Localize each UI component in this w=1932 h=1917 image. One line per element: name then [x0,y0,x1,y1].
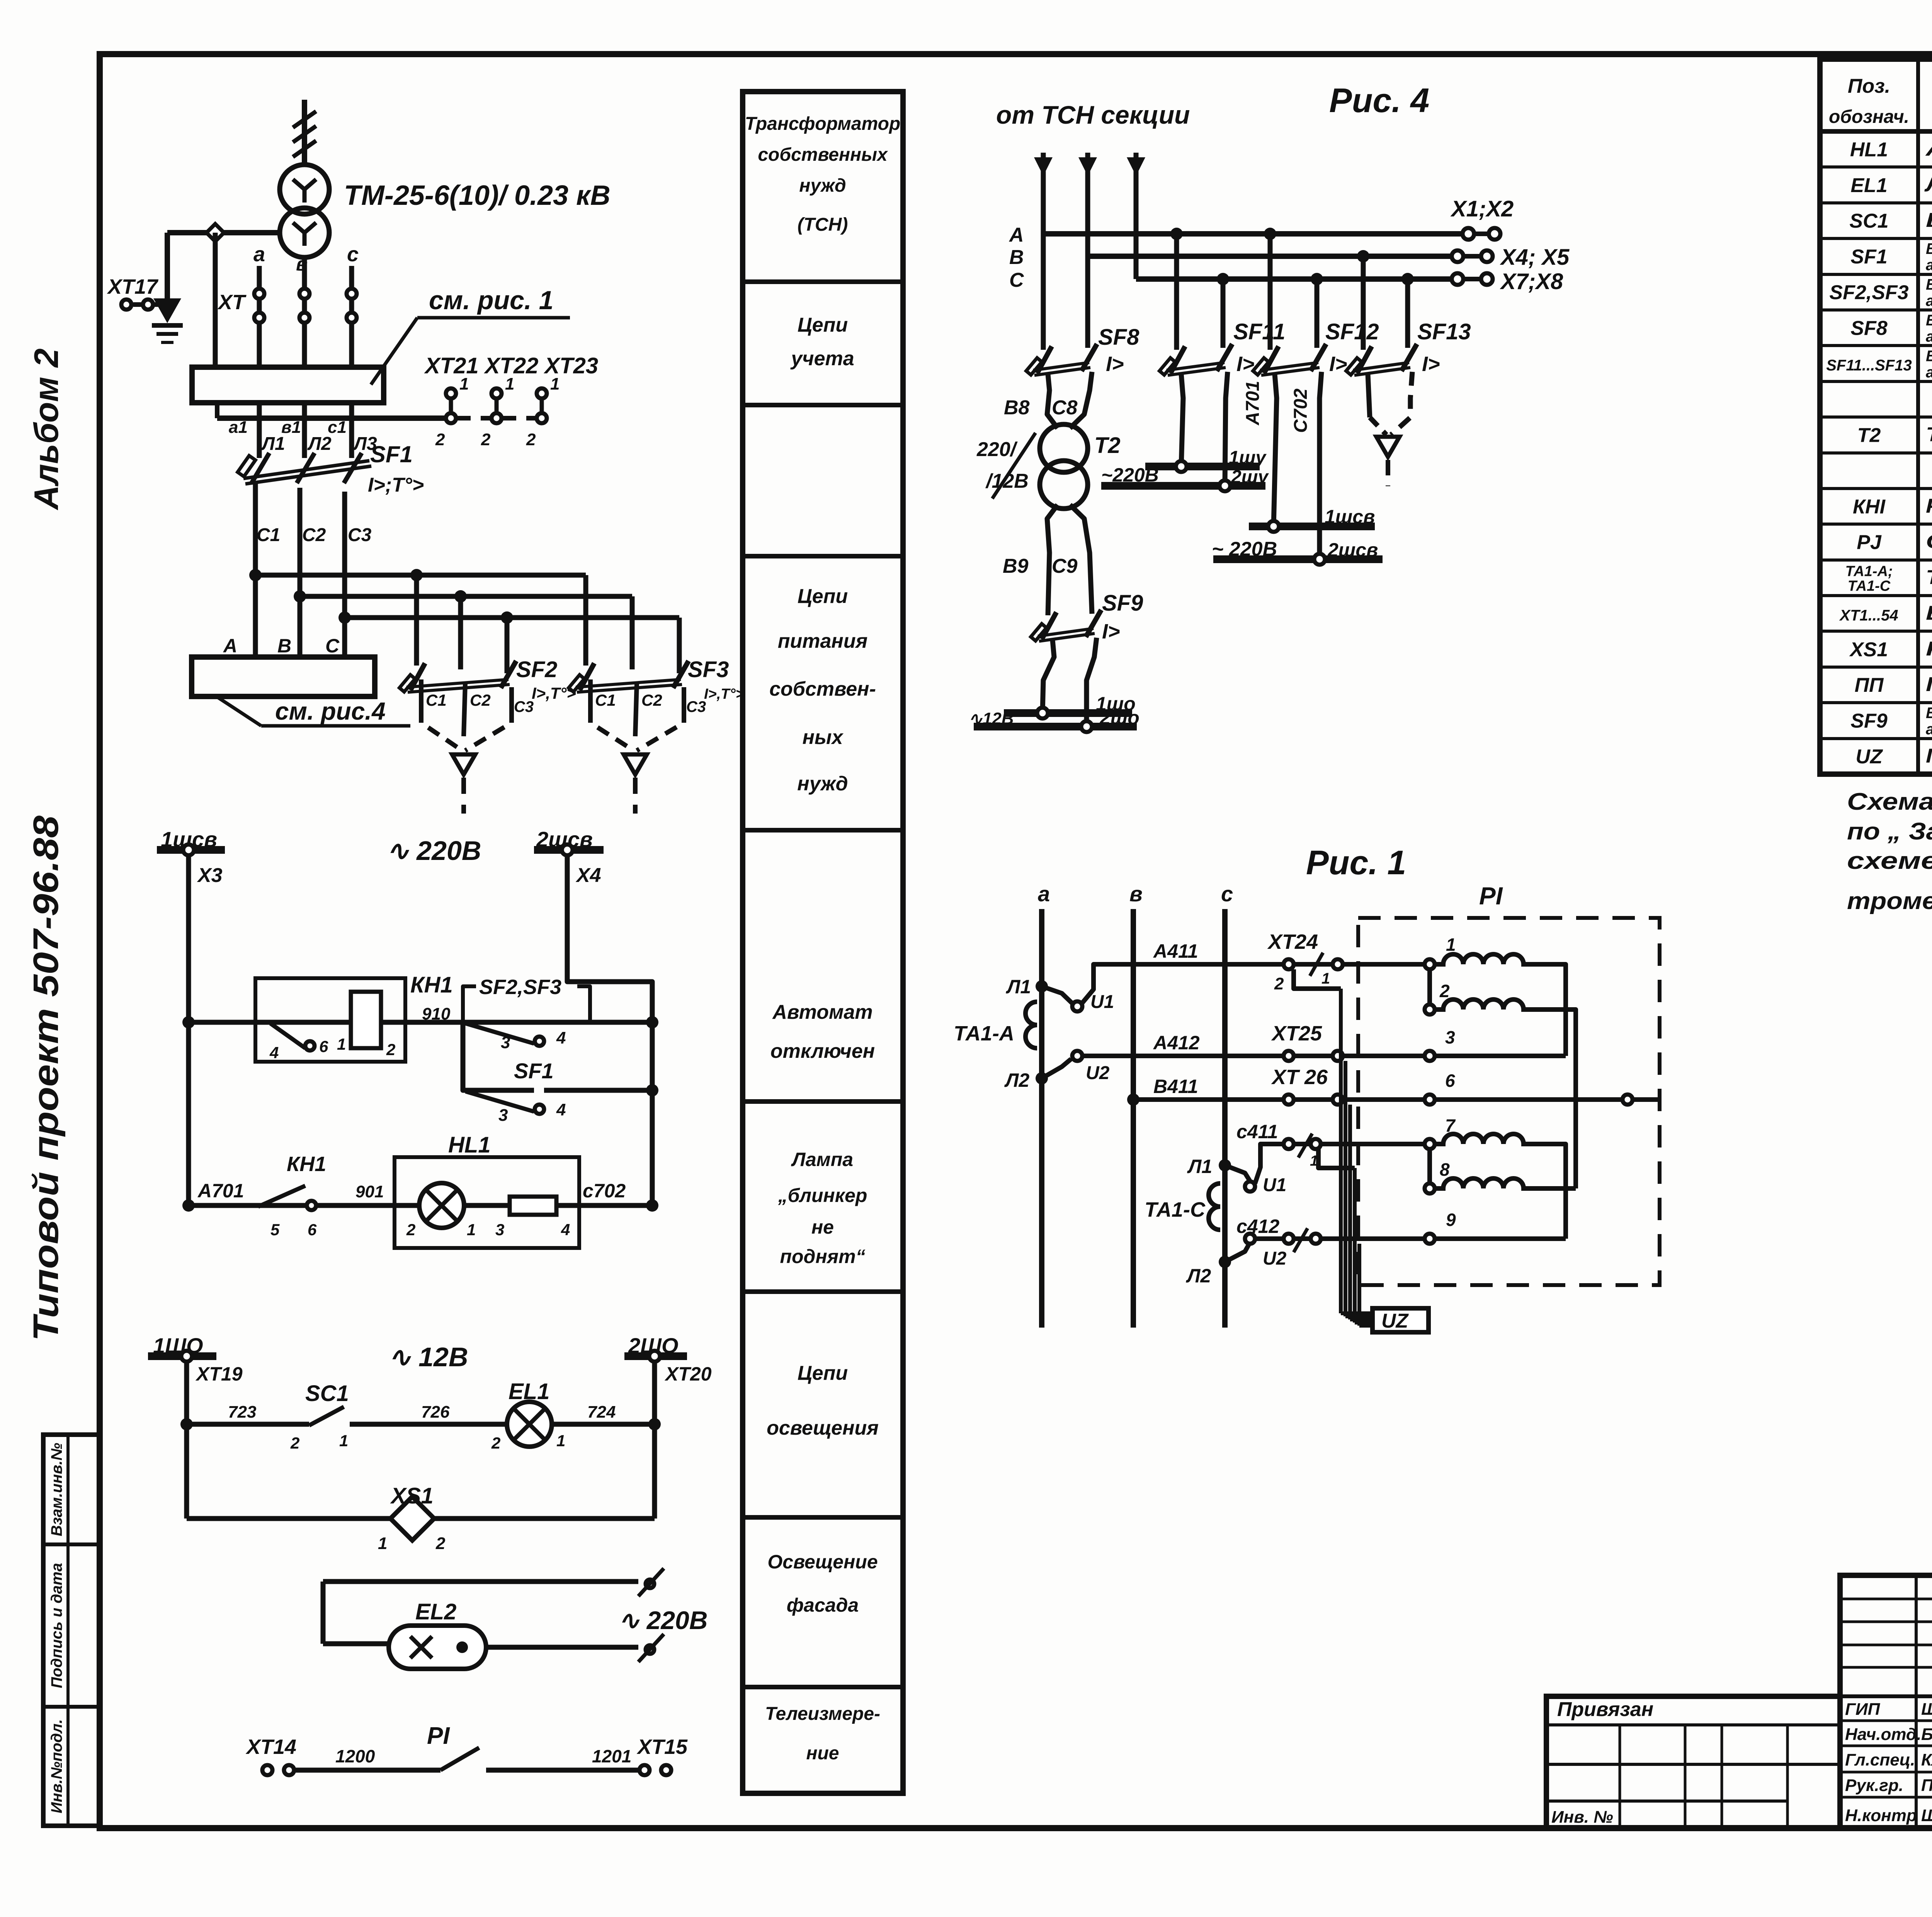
CT TA1-C U2 terminal [1245,1234,1255,1244]
wire winding2 to right [1531,1010,1576,1188]
svg-text:6: 6 [319,1037,328,1056]
svg-text:Трансформатор: Трансформатор [745,114,901,134]
wire XT17 link [133,302,167,307]
SF11 pole drops [1174,234,1179,350]
svg-text:С1: С1 [595,691,616,709]
breaker SF3 flag [569,675,585,692]
wire 9 to loop [1435,1236,1566,1241]
svg-text:Х4; Х5: Х4; Х5 [1500,245,1570,270]
CT TA1-C secondary arcs [1209,1183,1220,1230]
svg-text:U2: U2 [1263,1248,1287,1269]
svg-text:В8: В8 [1004,397,1030,419]
svg-text:4: 4 [556,1100,566,1119]
incoming supply line with hatches [302,100,307,165]
svg-text:Реле указательное РУ1-11-1УЗ;: Реле указательное РУ1-11-1УЗ; 220В; 50Гц [1926,495,1932,517]
EL2 bottom open contact [646,1645,654,1654]
svg-text:собственных: собственных [758,145,888,165]
svg-text:SF11: SF11 [1233,319,1285,344]
svg-text:автоматический: автоматический [1926,328,1932,345]
svg-text:I>: I> [1106,352,1124,376]
svg-text:SC1: SC1 [1849,210,1888,232]
svg-text:Л1: Л1 [261,434,285,454]
svg-text:SF9: SF9 [1102,591,1143,616]
svg-text:4: 4 [561,1221,570,1239]
svg-text:Л2: Л2 [307,434,332,454]
svg-text:ХТ 26: ХТ 26 [1271,1066,1328,1089]
wire X3 down [186,855,191,1205]
svg-text:SF1: SF1 [370,441,413,467]
contact SF2SF3 blade [466,1023,534,1044]
svg-text:2: 2 [1439,981,1450,1001]
svg-text:Цепи: Цепи [798,314,848,336]
svg-text:I>: I> [1236,352,1255,376]
phase mark c411 [1298,1134,1312,1158]
terminal c412 circles [1284,1234,1294,1244]
SF3 arrow head [624,754,647,775]
wire lamp row [189,1203,652,1208]
CT TA1-A U1 terminal [1042,986,1072,1003]
svg-text:нужд: нужд [799,175,846,196]
svg-text:А: А [1009,224,1024,246]
CT TA1-C U1 terminal [1225,1165,1250,1181]
svg-text:Подпись и дата: Подпись и дата [48,1563,65,1688]
bus 1шо [1004,709,1132,717]
switch PI blade [440,1748,479,1770]
svg-text:2: 2 [1274,974,1284,993]
svg-text:с: с [347,243,359,266]
transformer T1 winding 2 Y symbol [293,223,316,246]
svg-text:С702: С702 [1291,388,1311,433]
svg-text:Трансформатор ОСМ-0,25 УЗ; 22: Трансформатор ОСМ-0,25 УЗ; 220/12В [1926,424,1932,446]
phase mark c412 [1294,1228,1308,1252]
transformer T2 winding 1 [1040,424,1088,472]
svg-text:1шсв: 1шсв [1325,506,1375,528]
svg-text:Трансформатор тока ТК20-0,5-1: Трансформатор тока ТК20-0,5-100/343 [1926,566,1932,589]
svg-text:Л2: Л2 [1004,1069,1029,1091]
terminal XT24 [1284,959,1294,969]
bus A [1043,231,1468,237]
svg-text:ХТ24: ХТ24 [1267,930,1318,953]
PI terminal 1 [1425,959,1435,969]
EL2 wire to right contact [486,1645,638,1650]
svg-text:∿ 12В: ∿ 12В [388,1342,468,1372]
svg-text:а1: а1 [229,418,248,437]
svg-text:С9: С9 [1052,555,1078,577]
breaker SF2 blades [410,663,425,690]
svg-text:1: 1 [505,375,514,393]
bus 2шо [974,723,1137,730]
wire c412 to PI 9 [1321,1236,1425,1241]
svg-text:HL1: HL1 [448,1132,491,1158]
svg-text:Л1: Л1 [1187,1156,1212,1177]
svg-text:питания: питания [778,630,867,652]
svg-text:схеме ВИЮЕ 305. 351. 004 С: схеме ВИЮЕ 305. 351. 004 Свердловского э… [1847,848,1932,874]
transformer T1 winding 1 Y symbol [293,179,316,203]
SF3 pole stubs below blades [588,679,593,710]
link PI terminals 7-8 [1427,1149,1432,1183]
svg-text:2: 2 [491,1434,500,1452]
svg-text:ХТ15: ХТ15 [636,1735,688,1759]
bus c [1222,909,1228,1328]
svg-text:Х3: Х3 [197,864,223,887]
svg-text:С3: С3 [514,698,534,715]
svg-text:ХS1: ХS1 [390,1483,434,1508]
svg-text:I>: I> [1329,352,1347,376]
svg-text:обознач.: обознач. [1829,107,1909,127]
CT TA1-A secondary arcs [1026,1002,1037,1048]
svg-text:Гл.спец.: Гл.спец. [1845,1750,1915,1769]
lamp EL1 [507,1402,552,1447]
breaker SF1 flag [238,456,255,477]
svg-text:Выключатель: Выключатель [1926,312,1932,329]
bus C terminals X7 X8 [1452,273,1463,285]
contact SF1 blade [466,1091,534,1112]
svg-text:1: 1 [459,375,469,393]
SF1 poles upper [257,403,262,458]
svg-text:SF12: SF12 [1325,319,1379,344]
wire SC1 EL1 row [187,1422,309,1427]
breaker SF2 linkage bar [406,679,509,687]
bus 2шсв [1213,555,1383,563]
breaker SF11 linkage bar [1167,363,1225,370]
wire SF1 row [463,1022,534,1090]
svg-text:КНI: КНI [1853,495,1886,518]
svg-text:от ТСН секции: от ТСН секции [996,100,1190,129]
svg-text:с412: с412 [1236,1216,1279,1237]
wire XT20 down [652,1362,657,1519]
svg-text:1: 1 [550,375,560,393]
svg-text:SF2: SF2 [516,657,557,682]
svg-text:UZ: UZ [1381,1310,1409,1332]
busbar box 2 [192,657,375,696]
svg-text:ХТ20: ХТ20 [664,1363,712,1385]
svg-text:Х7;Х8: Х7;Х8 [1500,269,1563,294]
phase line b [302,257,307,367]
lamp EL2 oval [389,1626,486,1669]
svg-text:ХS1: ХS1 [1849,638,1888,661]
svg-text:Предохранитель ПП-А/343; 220/: Предохранитель ПП-А/343; 220/230В [1926,673,1932,696]
wire after SC1 [350,1422,507,1427]
svg-text:см. рис. 1: см. рис. 1 [429,286,553,315]
bus 2шу [1101,482,1265,490]
svg-text:Инв.№подл.: Инв.№подл. [48,1719,65,1813]
SF3 dashed stub [633,778,638,814]
svg-text:А411: А411 [1153,940,1198,962]
phase mark XT24 [1310,953,1323,976]
bus 1ШО [148,1352,216,1360]
PI terminal 6 [1425,1095,1435,1105]
bus 2ШО [624,1352,687,1360]
switch SC1 blade [309,1407,344,1425]
wire KH1 row [189,1020,652,1025]
svg-text:Н.контр: Н.контр [1845,1806,1917,1825]
svg-text:а: а [253,243,265,266]
svg-text:В9: В9 [1003,555,1029,577]
svg-text:2: 2 [481,430,491,449]
feeder verticals [1041,170,1046,234]
svg-text:Т2: Т2 [1094,433,1121,458]
converter UZ box [1372,1308,1429,1332]
svg-text:нужд: нужд [797,773,848,795]
svg-text:ХТ17: ХТ17 [107,275,159,298]
svg-text:ХТ19: ХТ19 [195,1363,243,1385]
svg-text:С: С [1009,269,1024,291]
linkage SF2 SF3 contact [463,986,476,1022]
EL2 loop left wire [321,1582,326,1644]
svg-text:2шу: 2шу [1231,467,1269,487]
wire A412 row [1082,1054,1283,1058]
svg-text:освещения: освещения [767,1417,879,1439]
svg-text:1: 1 [556,1432,565,1450]
svg-text:SC1: SC1 [305,1381,349,1406]
svg-text:1: 1 [337,1035,346,1053]
svg-text:1: 1 [1446,935,1456,955]
breaker SF8 linkage bar [1033,363,1089,370]
transformer T2 winding 2 [1040,461,1088,509]
svg-text:3: 3 [501,1033,510,1052]
svg-text:А: А [223,635,237,657]
svg-text:А701: А701 [1243,381,1263,426]
breaker SF12 linkage bar [1260,363,1318,370]
wire 1201 [486,1768,639,1773]
svg-text:ТА1-С: ТА1-С [1848,578,1891,594]
svg-text:2: 2 [406,1221,415,1239]
svg-text:SF8: SF8 [1850,317,1887,339]
breaker SF9 flag [1031,624,1047,641]
dashed links between test terminals [456,416,492,421]
SF8 poles to T2 [1047,374,1058,428]
wire XT26 to PI 6 [1343,1097,1425,1102]
SF13 poles converge dashed [1368,374,1370,417]
svg-text:Рис. 4: Рис. 4 [1329,81,1429,119]
PI terminal 9 [1425,1234,1435,1244]
svg-text:в: в [1129,882,1143,906]
svg-text:С1: С1 [257,525,280,545]
svg-text:ТМ-25-6(10)/ 0.23 кВ: ТМ-25-6(10)/ 0.23 кВ [344,180,611,211]
wire c412 [1255,1236,1283,1241]
svg-text:ТА1-А;: ТА1-А; [1845,564,1893,580]
svg-text:поднят“: поднят“ [780,1246,865,1267]
PI terminal 8 [1425,1183,1435,1193]
node diamond on tap wire [206,224,224,241]
svg-text:ХТ1...54: ХТ1...54 [1839,607,1898,624]
junction dots on branch wires [249,569,262,581]
bus 1шу [1145,463,1260,470]
callout см. рис.4 [216,696,261,726]
svg-text:фасада: фасада [787,1594,859,1616]
wire X4 down with jog [567,855,652,1205]
breaker SF12 flag [1253,358,1269,375]
SF2 dashed stub [461,778,466,814]
bus B terminals X4 X5 [1452,250,1463,262]
branch wire 2 [300,594,632,599]
svg-text:2: 2 [290,1434,299,1452]
svg-text:SF1: SF1 [514,1059,554,1083]
PI terminal 2 [1425,1004,1435,1015]
svg-text:Рук.гр.: Рук.гр. [1845,1776,1903,1795]
svg-text:автоматический: автоматический [1926,721,1932,738]
svg-text:Поз.: Поз. [1848,75,1890,97]
ground symbol [152,323,183,328]
phase line a [257,266,262,367]
svg-text:I>: I> [1102,620,1120,643]
breaker SF12 blades [1264,346,1279,373]
svg-text:I>: I> [1422,352,1440,376]
svg-text:автоматический: автоматический [1926,364,1932,381]
svg-text:EL1: EL1 [1850,174,1887,197]
svg-text:2: 2 [526,430,536,449]
terminal X3 [183,844,194,855]
terminal XT20 [649,1351,660,1362]
svg-text:Цепи: Цепи [798,1362,848,1384]
wire left drop to busbar [213,233,218,367]
CT TA1-A primary dots [1036,980,1048,993]
svg-text:Л2: Л2 [1186,1265,1211,1287]
svg-text:с702: с702 [583,1180,626,1202]
bus B [1088,254,1458,259]
svg-text:726: 726 [421,1403,450,1422]
arrester arrow [153,298,181,323]
terminal XT26 [1284,1095,1294,1105]
breaker SF13 blades [1357,346,1372,373]
svg-text:ПП: ПП [1855,674,1884,696]
wire under busbar to test terminals [215,403,219,418]
svg-text:собствен-: собствен- [769,678,876,700]
svg-text:по „ Запорожтрансформатор“ и: по „ Запорожтрансформатор“ и соответству… [1847,818,1932,845]
svg-text:Х4: Х4 [575,864,601,887]
svg-text:А412: А412 [1153,1032,1200,1054]
svg-text:2: 2 [435,430,445,449]
EL2 loop top wire [323,1579,638,1584]
wire c411 [1255,1144,1283,1183]
svg-text:Счетчик САЗУ-И670Д 220В;: Счетчик САЗУ-И670Д 220В; 5А [1926,531,1932,553]
socket XS1 diamond [390,1496,434,1540]
breaker SF3 blades [580,663,594,690]
wire XT24 pin2 to bundle [1294,969,1341,989]
svg-text:Выключатель: Выключатель [1926,276,1932,293]
svg-text:Взам.инв.№: Взам.инв.№ [48,1443,65,1536]
svg-text:ТА1-А: ТА1-А [954,1022,1014,1045]
wire XS1 row [187,1516,391,1521]
svg-text:EL1: EL1 [509,1379,549,1404]
transformer T1 winding 2 [280,208,329,257]
svg-text:Привезенцева: Привезенцева [1921,1776,1932,1795]
lamp HL1 box [395,1157,579,1248]
wire after EL1 [552,1422,655,1427]
svg-text:А701: А701 [197,1180,244,1202]
svg-text:автоматический: автоматический [1926,293,1932,310]
svg-text:2шо: 2шо [1099,707,1139,729]
junction dots on buses [1170,228,1183,240]
bus 1шсв [157,846,225,854]
svg-text:Выключатель: Выключатель [1926,347,1932,364]
PI winding 1 [1435,954,1531,964]
svg-text:С2: С2 [302,525,326,545]
svg-text:С3: С3 [348,525,372,545]
svg-text:6: 6 [308,1221,317,1239]
contact КН1 on lamp row blade [258,1186,305,1207]
bundle into UZ [1341,1311,1372,1315]
svg-text:с: с [1221,882,1233,906]
svg-text:С: С [325,635,340,657]
breaker SF8 flag [1026,358,1042,375]
wire XT19 down [184,1362,189,1519]
svg-text:ГИП: ГИП [1845,1700,1881,1719]
wire 3 to loop [1435,1054,1566,1058]
wire winding7 right loop [1531,1144,1566,1239]
svg-text:учета: учета [790,347,854,370]
svg-text:723: 723 [228,1403,256,1422]
svg-text:HL1: HL1 [1850,138,1888,161]
svg-text:3: 3 [498,1106,508,1125]
bus A terminals X1 X2 [1463,228,1474,240]
svg-text:SF2,SF3: SF2,SF3 [1829,281,1908,304]
breaker SF8 blades [1037,346,1052,373]
terminal XT17 circles [121,300,131,310]
svg-text:ние: ние [806,1743,839,1764]
wire winding1 right loop [1531,964,1566,1056]
wire 6 to right return [1435,1097,1622,1102]
svg-text:Освещение: Освещение [767,1551,878,1573]
bus b [1131,909,1136,1328]
svg-text:4: 4 [556,1028,566,1047]
wire XT24 to PI 1 [1343,962,1425,967]
branch wire 1 to SF2 SF3 [255,573,586,578]
wire c411 tap to bundle [1318,1149,1355,1168]
svg-text:КН1: КН1 [287,1153,326,1176]
svg-text:Выключатель С-1-00-6/250: Выключатель С-1-00-6/250 [1926,209,1932,232]
svg-text:Шишло: Шишло [1921,1806,1932,1825]
svg-text:~ 220В: ~ 220В [1212,538,1277,560]
svg-text:8: 8 [1440,1159,1450,1180]
svg-text:В: В [1009,246,1024,269]
SF11 poles to шу buses [1181,374,1183,466]
svg-text:Т2: Т2 [1857,424,1881,447]
terminal X4 [562,844,573,855]
test terminals XT21-XT23 [449,397,453,414]
svg-text:1200: 1200 [335,1746,375,1766]
SF2 dashed converge to arrow [421,710,462,751]
T2 poles down to SF9 [1047,505,1058,615]
svg-text:1: 1 [467,1221,476,1239]
svg-text:2шсв: 2шсв [1327,539,1378,561]
svg-text:а: а [1038,882,1050,906]
svg-text:тромеханического завода.: тромеханического завода. [1847,888,1932,914]
svg-text:Цепи: Цепи [798,585,848,608]
svg-text:Блок зажимов: Блок зажимов [1926,602,1932,624]
svg-text:ХТ14: ХТ14 [245,1735,296,1759]
svg-text:ных: ных [803,726,844,749]
svg-text:Типовой проект 507-96.88: Типовой проект 507-96.88 [26,815,66,1341]
SF12 pole drops [1268,234,1273,350]
svg-text:SF11...SF13: SF11...SF13 [1826,357,1912,374]
SF2 pole drops [414,575,419,666]
measuring bundle verticals [1339,989,1343,1313]
breaker SF11 blades [1170,346,1185,373]
svg-text:С2: С2 [470,691,491,709]
svg-text:3: 3 [1445,1027,1455,1047]
svg-text:Арматура АМЕ325221У2; ∿ 220В: Арматура АМЕ325221У2; ∿ 220В [1925,138,1932,160]
SF13 dashed stub [1386,460,1390,486]
svg-text:Выключатель: Выключатель [1926,705,1932,722]
phase line c [349,266,354,367]
svg-text:724: 724 [587,1403,616,1422]
svg-text:РJ: РJ [1857,531,1882,554]
SF3 dashed converge to arrow [590,710,634,751]
wire transformer to arrester tap [167,230,280,235]
transformer T1 winding 1 [280,165,329,214]
svg-text:В: В [277,635,291,657]
